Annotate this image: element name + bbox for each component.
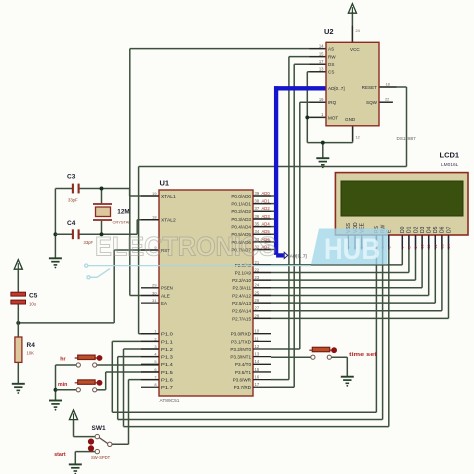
svg-text:38: 38 [255, 199, 260, 204]
U1 pin 33 P0.6/AD6 [231, 237, 270, 245]
wire MOT: U2.MOT to CS/ground net [307, 116, 326, 118]
svg-text:13: 13 [440, 244, 444, 248]
wire R4 top stem [17, 323, 19, 337]
switch SW1 SW-SPDT [88, 434, 112, 453]
svg-text:28: 28 [255, 313, 260, 318]
svg-text:P0.1/AD1: P0.1/AD1 [231, 202, 251, 207]
U1 right pin stubs [253, 196, 271, 387]
svg-text:D1: D1 [407, 226, 413, 233]
wire IRQ net: U2.IRQ to U1.P3.2/INT0 [271, 102, 326, 349]
ic U2 DS12887 body [326, 42, 379, 126]
LCD pin 2 VDD [353, 222, 359, 248]
svg-text:P2.4/A12: P2.4/A12 [232, 293, 251, 298]
pushbutton min [75, 380, 103, 392]
ground below button rail [49, 401, 62, 411]
svg-text:AD2: AD2 [262, 206, 271, 211]
LCD pin 8 D1 [407, 226, 413, 248]
LCD pin stubs [348, 235, 448, 250]
LCD pin 13 D6 [440, 226, 446, 248]
svg-text:AD[0..7]: AD[0..7] [290, 253, 307, 258]
svg-text:2: 2 [154, 336, 156, 341]
U1 pin 23 P2.2/A10 [232, 275, 260, 283]
svg-text:P1.2: P1.2 [161, 347, 173, 352]
svg-text:GND: GND [345, 117, 356, 122]
wire left rail of crystal caps [54, 189, 56, 258]
svg-text:29: 29 [152, 283, 156, 288]
svg-text:39: 39 [255, 191, 260, 196]
svg-text:P3.0/RXD: P3.0/RXD [231, 332, 252, 337]
U1 pin 27 P2.6/A14 [232, 306, 260, 314]
svg-text:hr: hr [60, 356, 65, 362]
U1 pin 18 XTAL2 [152, 215, 176, 223]
ground below U2 [316, 158, 329, 168]
ground below time set [341, 377, 354, 387]
node junction min rail [54, 388, 58, 392]
svg-text:AD0: AD0 [262, 191, 271, 196]
svg-text:17: 17 [319, 59, 324, 64]
svg-text:P2.7/A15: P2.7/A15 [232, 316, 251, 321]
svg-text:D6: D6 [440, 226, 446, 233]
U1 pin 17 P3.7/RD [234, 382, 260, 390]
svg-text:33pF: 33pF [68, 198, 78, 203]
U1 pin 14 P3.4/T0 [235, 359, 260, 367]
svg-text:11: 11 [255, 336, 260, 341]
svg-text:C5: C5 [29, 293, 38, 300]
svg-text:XTAL1: XTAL1 [161, 194, 176, 199]
wire time set button to ground [331, 357, 347, 376]
svg-text:SQW: SQW [366, 100, 378, 105]
wire VCC stem of U2 [351, 12, 353, 43]
U1 pin 4 P1.3 [154, 352, 173, 360]
ground below SW1 [69, 464, 82, 474]
wire C4 row to XTAL2 [55, 220, 159, 235]
svg-text:D3: D3 [420, 226, 426, 233]
wire SW1 power stem [74, 420, 96, 437]
svg-text:10: 10 [421, 244, 425, 248]
svg-text:C3: C3 [67, 173, 76, 180]
wire SQW stub [379, 101, 393, 103]
svg-text:P1.7: P1.7 [161, 385, 173, 390]
svg-text:P3.2/INT0: P3.2/INT0 [230, 347, 251, 352]
bus AD[0..7] horizontal into U2 [274, 86, 326, 90]
ic U1 AT89C51 body [159, 190, 253, 396]
svg-text:AD1: AD1 [262, 199, 271, 204]
svg-text:15: 15 [255, 367, 260, 372]
ground below crystal rail [49, 258, 62, 268]
power arrow above C5 [14, 260, 22, 270]
svg-text:D0: D0 [400, 226, 406, 233]
svg-text:AD3: AD3 [262, 214, 271, 219]
bus entry arrow [284, 252, 288, 258]
U1 pin 32 P0.7/AD7 [231, 244, 270, 252]
wire LCD RS to U1.P1.1 [112, 235, 376, 412]
capacitor C3 33pF [73, 184, 79, 194]
svg-text:U1: U1 [160, 179, 170, 188]
svg-text:10u: 10u [29, 301, 37, 306]
svg-text:MOT: MOT [328, 115, 338, 120]
svg-text:AD4: AD4 [262, 222, 271, 227]
lcd LCD1 LM016L body [335, 173, 468, 235]
svg-text:AD[0..7]: AD[0..7] [328, 86, 345, 91]
wire SW1 common to U1.P1.6 [112, 380, 159, 445]
wires P2.0-P2.7 to LCD D0-D7 [253, 235, 449, 318]
svg-text:D4: D4 [427, 226, 433, 233]
wire LCD E to U1.P1.2 [124, 235, 389, 427]
svg-text:36: 36 [255, 214, 260, 219]
svg-text:P0.2/AD2: P0.2/AD2 [231, 209, 251, 214]
svg-text:P1.6: P1.6 [161, 378, 173, 383]
LCD pin 3 VEE [360, 222, 366, 248]
svg-text:6: 6 [154, 367, 156, 372]
LCD pin 11 D4 [427, 226, 433, 248]
bus AD[0..7] vertical [274, 86, 278, 255]
wires P0.0-P0.7 to AD bus [253, 196, 274, 250]
svg-text:6: 6 [387, 246, 391, 248]
U1 pin 9 RST [154, 245, 170, 253]
svg-text:33pF: 33pF [84, 240, 94, 245]
U2 pin SQW [366, 96, 389, 105]
U1 pin 6 P1.5 [154, 367, 173, 375]
U1 pin 36 P0.3/AD3 [231, 214, 270, 222]
svg-text:R4: R4 [27, 342, 36, 349]
svg-text:8: 8 [407, 246, 411, 248]
U1 pin 34 P0.5/AD5 [231, 229, 270, 237]
svg-text:P2.5/A13: P2.5/A13 [232, 301, 251, 306]
U2 pin CS [319, 67, 335, 75]
U1 pin 10 P3.0/RXD [231, 329, 260, 337]
wire CS net: U2.CS down to ground net [307, 72, 326, 143]
svg-text:7: 7 [401, 246, 405, 248]
svg-text:14: 14 [447, 244, 451, 248]
svg-text:PSEN: PSEN [161, 286, 173, 291]
wire C5 bottom stem [17, 304, 19, 323]
svg-text:P1.3: P1.3 [161, 355, 173, 360]
svg-text:P2.2/A10: P2.2/A10 [232, 278, 251, 283]
svg-text:SW-SPDT: SW-SPDT [91, 455, 111, 460]
svg-text:24: 24 [255, 283, 260, 288]
LCD pin 6 E [387, 229, 393, 249]
U1 pin 24 P2.3/A11 [232, 283, 259, 291]
node junction C4 row [53, 232, 57, 236]
power arrow above U2 [348, 4, 356, 14]
U2 pin MOT [321, 112, 338, 120]
svg-text:15: 15 [319, 51, 324, 56]
svg-text:19: 19 [152, 191, 156, 196]
svg-text:13: 13 [319, 67, 324, 72]
svg-text:3: 3 [154, 344, 156, 349]
svg-text:AS: AS [328, 47, 334, 52]
capacitor C4 33pF [73, 229, 79, 239]
crystal X1 12MHz [93, 204, 112, 220]
svg-text:10: 10 [255, 329, 260, 334]
U1 pin 22 P2.1/A9 [235, 267, 260, 275]
U1 pin 28 P2.7/A15 [232, 313, 260, 321]
U1 pin 5 P1.4 [154, 359, 173, 367]
svg-text:D7: D7 [446, 226, 452, 233]
svg-text:CRYSTAL: CRYSTAL [113, 219, 132, 224]
svg-text:P1.4: P1.4 [161, 362, 173, 367]
U2 pin stubs [310, 26, 397, 141]
node junction crystal top [100, 187, 104, 191]
svg-text:17: 17 [255, 382, 260, 387]
svg-text:18: 18 [386, 81, 390, 86]
resistor R4 10K [15, 337, 22, 362]
wire R/W net: U2.RW to U1.P3.6/WR [271, 57, 326, 380]
U1 pin 25 P2.4/A12 [232, 290, 260, 298]
U1 pin 39 P0.0/AD0 [231, 191, 270, 199]
svg-text:min: min [58, 382, 67, 388]
watermark swoosh line [85, 264, 311, 279]
U1 pin 13 P3.3/INT1 [230, 352, 260, 360]
svg-text:12: 12 [434, 244, 438, 248]
U1 pin 37 P0.2/AD2 [231, 206, 270, 214]
wire RESET net: U2.RESET to U1.P1.0 [139, 87, 407, 334]
svg-text:14: 14 [319, 43, 324, 48]
wire C3 row to XTAL1 [55, 189, 159, 197]
node junction ground stem [321, 141, 325, 145]
U1 pin 8 P1.7 [154, 382, 173, 390]
U1 pin 11 P3.1/TXD [231, 336, 259, 344]
svg-text:12M: 12M [117, 209, 129, 216]
U2 pin DS [319, 59, 335, 67]
svg-text:RESET: RESET [362, 85, 378, 90]
wire crystal top stem [101, 189, 103, 204]
U1 pin 29 PSEN [152, 283, 173, 291]
wire crystal bottom stem [101, 221, 103, 235]
node junction CS/MOT [305, 115, 309, 119]
U1 pin 15 P3.5/T1 [235, 367, 260, 375]
U1 pin 12 P3.2/INT0 [230, 344, 260, 352]
U1 pin 2 P1.1 [154, 336, 173, 344]
svg-text:10K: 10K [27, 351, 35, 356]
watermark HUB box [311, 229, 388, 265]
U2 pin AD[0..7] [328, 86, 345, 91]
svg-text:P3.3/INT1: P3.3/INT1 [230, 355, 251, 360]
U1 pin 31 EA [152, 298, 168, 306]
svg-text:ALE: ALE [161, 293, 170, 298]
svg-text:CS: CS [328, 70, 334, 75]
svg-text:LCD1: LCD1 [440, 151, 460, 160]
svg-text:12: 12 [255, 344, 260, 349]
wire button ground rail [55, 365, 57, 400]
LCD pin 9 D2 [413, 226, 419, 248]
svg-text:ELECTRONICS: ELECTRONICS [95, 232, 276, 262]
svg-text:P3.1/TXD: P3.1/TXD [231, 339, 252, 344]
svg-text:1: 1 [154, 329, 156, 334]
U1 pin 7 P1.6 [154, 375, 173, 383]
svg-text:P2.1/A9: P2.1/A9 [235, 270, 252, 275]
svg-text:P1.1: P1.1 [161, 339, 173, 344]
svg-text:P2.3/A11: P2.3/A11 [232, 286, 251, 291]
wire AS net: U2.AS to U1.ALE [130, 49, 326, 296]
svg-text:37: 37 [255, 206, 260, 211]
U1 pin 38 P0.1/AD1 [231, 199, 270, 207]
wire DS net: U2.DS to U1.P3.7/RD [271, 64, 326, 387]
svg-text:D5: D5 [433, 226, 439, 233]
svg-text:IRQ: IRQ [328, 100, 337, 105]
LCD pin 5 RW [380, 224, 386, 248]
svg-text:P3.7/RD: P3.7/RD [234, 385, 252, 390]
LCD pin 14 D7 [446, 226, 452, 248]
U1 pin 26 P2.5/A13 [232, 298, 260, 306]
svg-text:RW: RW [328, 55, 336, 60]
svg-text:DS12887: DS12887 [397, 136, 417, 141]
svg-text:start: start [54, 452, 66, 458]
svg-text:C4: C4 [67, 220, 76, 227]
wire RST net: divider to U1.RST [18, 250, 159, 323]
svg-text:27: 27 [255, 306, 260, 311]
pushbutton time set [309, 347, 337, 359]
svg-text:D2: D2 [413, 226, 419, 233]
LCD pin 1 VSS [346, 222, 352, 248]
svg-text:18: 18 [152, 215, 156, 220]
svg-text:22: 22 [385, 96, 389, 101]
svg-text:7: 7 [154, 375, 156, 380]
U1 pin 35 P0.4/AD4 [231, 222, 270, 230]
wire time set button to U1.P3.3/INT1 [271, 356, 311, 358]
svg-text:P3.6/WR: P3.6/WR [233, 378, 252, 383]
svg-text:19: 19 [319, 97, 324, 102]
svg-text:time set: time set [349, 352, 377, 358]
svg-text:26: 26 [255, 298, 260, 303]
svg-text:13: 13 [255, 352, 260, 357]
svg-text:35: 35 [255, 222, 260, 227]
svg-text:8: 8 [154, 382, 156, 387]
svg-text:LM016L: LM016L [441, 162, 459, 168]
U1 pin 30 ALE [152, 290, 170, 298]
capacitor C5 10u [11, 292, 26, 304]
U2 pin AS [319, 43, 334, 51]
svg-text:25: 25 [255, 290, 260, 295]
U1 pin 1 P1.0 [154, 329, 173, 337]
svg-text:P1.5: P1.5 [161, 370, 173, 375]
U2 pin GND [345, 117, 360, 140]
svg-text:P3.4/T0: P3.4/T0 [235, 362, 252, 367]
svg-text:5: 5 [154, 359, 156, 364]
node junction crystal bottom [100, 232, 104, 236]
pushbutton hr [75, 355, 103, 367]
LCD pin 10 D3 [420, 226, 426, 248]
bus AD[0..7] bottom spur [276, 253, 284, 257]
svg-text:DS: DS [328, 62, 334, 67]
svg-text:HUB: HUB [324, 233, 380, 266]
U2 pin RESET [362, 81, 390, 90]
wire R4 bottom stem [17, 362, 19, 383]
svg-text:12: 12 [356, 135, 360, 140]
U1 pin 19 XTAL1 [152, 191, 176, 199]
svg-text:P0.3/AD3: P0.3/AD3 [231, 217, 251, 222]
wire hr button to U1.P1.4 [56, 364, 160, 366]
U1 pin 16 P3.6/WR [233, 375, 260, 383]
svg-text:P1.0: P1.0 [161, 332, 173, 337]
svg-text:P0.4/AD4: P0.4/AD4 [231, 225, 251, 230]
svg-text:23: 23 [255, 275, 260, 280]
svg-text:14: 14 [255, 359, 260, 364]
U2 pin RW [319, 51, 336, 59]
svg-text:31: 31 [152, 298, 156, 303]
wire LCD RW to U1.P1.3 [118, 235, 383, 420]
svg-text:EA: EA [161, 301, 168, 306]
LCD pin 4 RS [374, 225, 380, 248]
svg-text:P2.6/A14: P2.6/A14 [232, 309, 251, 314]
ground below R4 [12, 384, 25, 394]
svg-text:16: 16 [255, 375, 260, 380]
svg-text:U2: U2 [324, 27, 334, 36]
svg-text:22: 22 [255, 267, 260, 272]
node junction C5/R4 [16, 321, 20, 325]
lcd screen [341, 181, 463, 216]
U1 pin 3 P1.2 [154, 344, 173, 352]
svg-text:VCC: VCC [350, 47, 360, 52]
wire U2 ground net [307, 126, 352, 158]
wire C5 top stem [17, 269, 19, 292]
LCD pin 7 D0 [400, 226, 406, 248]
power arrow above SW1 [69, 410, 77, 420]
svg-text:P3.5/T1: P3.5/T1 [235, 370, 252, 375]
LCD pin 12 D5 [433, 226, 439, 248]
U2 pin IRQ [319, 97, 337, 105]
svg-text:9: 9 [414, 246, 418, 248]
svg-text:XTAL2: XTAL2 [161, 218, 176, 223]
svg-text:P0.0/AD0: P0.0/AD0 [231, 194, 251, 199]
U2 pin VCC [350, 28, 361, 52]
svg-text:AT89C51: AT89C51 [160, 398, 180, 404]
wire SW1 lower throw to ground [75, 452, 95, 464]
U1 left pin stubs [141, 196, 159, 387]
svg-text:SW1: SW1 [92, 425, 106, 432]
U1 pin 21 P2.0/A8 [235, 260, 260, 268]
svg-text:11: 11 [427, 245, 431, 249]
wire min button to U1.P1.5 [56, 372, 160, 390]
